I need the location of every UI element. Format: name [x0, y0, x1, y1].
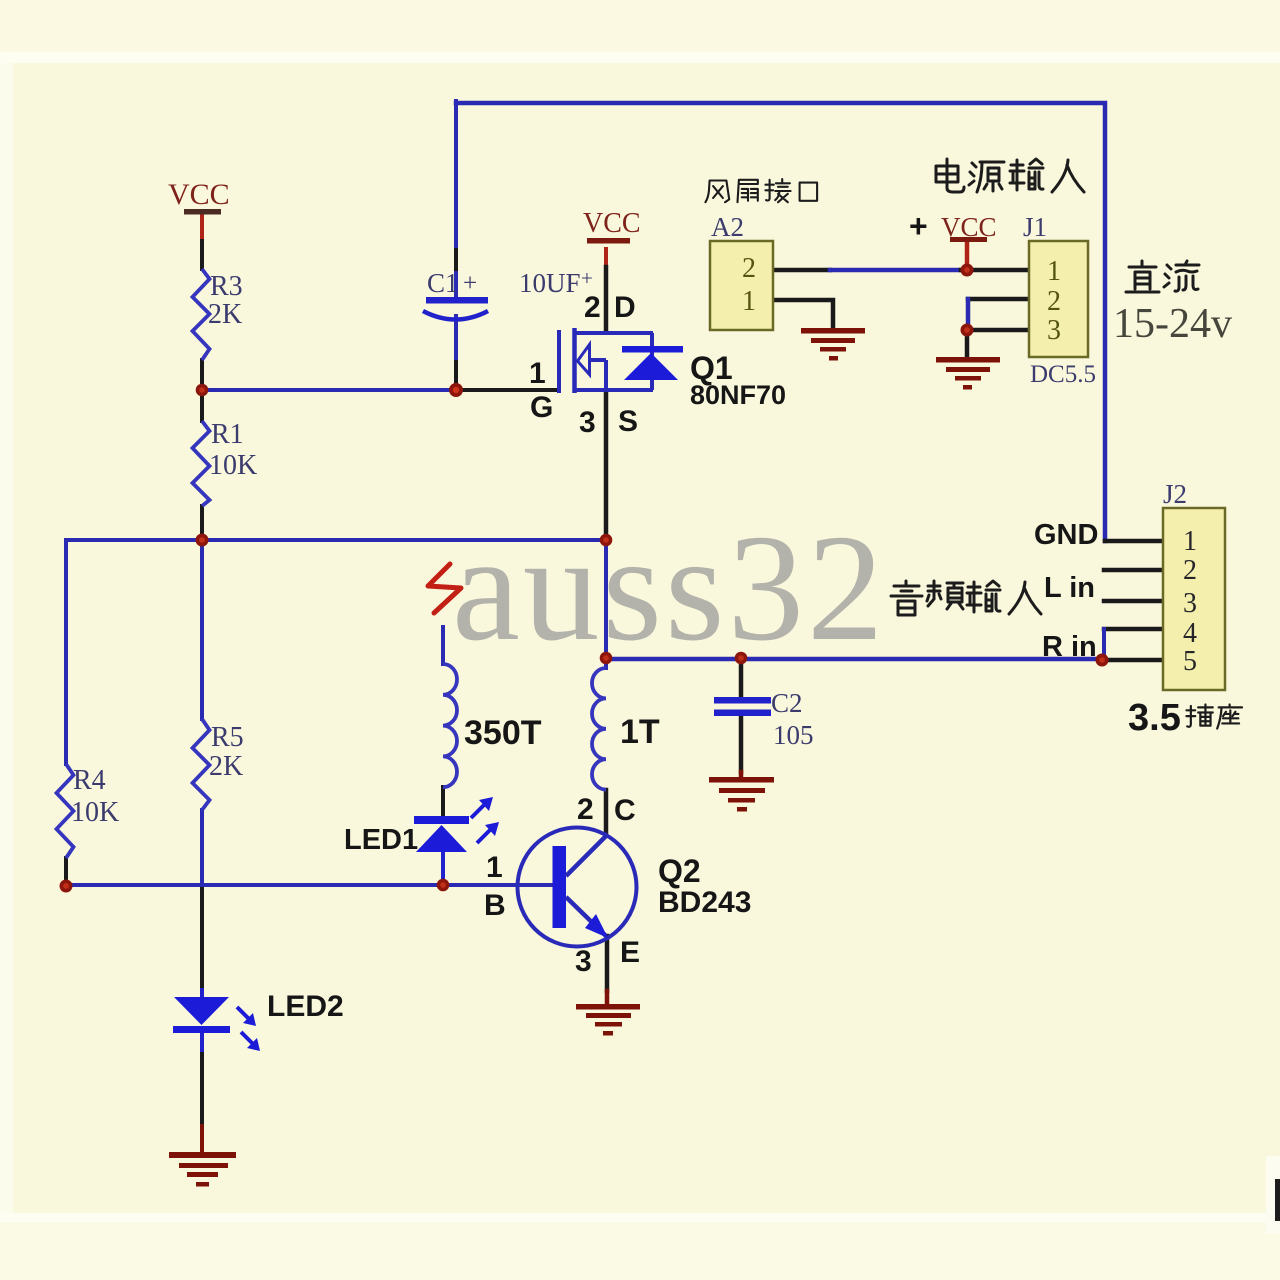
capacitor C2 [714, 697, 771, 704]
LED LED2 [174, 997, 229, 1025]
connector A2 (fan header) [710, 241, 773, 330]
svg-text:G: G [530, 391, 553, 424]
node C1/gate [449, 383, 463, 397]
svg-text:350T: 350T [464, 714, 542, 752]
wire LED2 leads [200, 990, 204, 997]
svg-text:2K: 2K [208, 299, 242, 330]
J2 pin numbers [1183, 526, 1197, 677]
svg-text:LED1: LED1 [344, 824, 418, 856]
wire C1 top lead [454, 101, 458, 250]
ground (J1 pin3) [936, 357, 1000, 390]
label 插座 (socket) [1186, 704, 1242, 728]
svg-text:R5: R5 [211, 722, 244, 753]
lightning bolt [428, 564, 461, 613]
node R in/J2 pin5 [1096, 654, 1109, 667]
svg-text:3: 3 [1047, 315, 1061, 346]
ground (Q2 emitter) [576, 1004, 640, 1036]
svg-text:VCC: VCC [168, 178, 230, 211]
svg-text:3: 3 [579, 406, 596, 439]
node R1/R5 [196, 534, 209, 547]
wire base horizontal node [66, 883, 553, 887]
svg-text:15-24v: 15-24v [1113, 301, 1232, 347]
wire J2 pin3 L in [1104, 599, 1163, 604]
body diode of Q1 [622, 346, 683, 353]
ground (A2 pin1) [801, 328, 865, 361]
wire LED1 bottom lead [441, 852, 445, 885]
inductor 1T [592, 668, 606, 790]
wire Q2 emitter to ground [605, 936, 610, 991]
svg-text:A2: A2 [711, 212, 744, 242]
svg-text:B: B [484, 889, 506, 922]
svg-text:E: E [620, 936, 640, 969]
wire 350T to LED1 [441, 787, 445, 817]
svg-text:LED2: LED2 [267, 990, 344, 1023]
label 风扇接口 (fan interface) [705, 179, 817, 202]
wire 350T top lead [441, 627, 445, 664]
svg-text:1: 1 [529, 357, 546, 390]
svg-text:auss32: auss32 [452, 504, 887, 673]
node R3/R1/gate [196, 384, 209, 397]
inductor 350T [443, 664, 457, 787]
svg-text:R3: R3 [210, 271, 243, 302]
svg-text:D: D [614, 291, 636, 324]
wire A2 pin1 to ground [773, 300, 833, 329]
wire C1 bottom lead [454, 316, 458, 362]
LED LED1 [414, 816, 469, 824]
capacitor C1 [426, 297, 488, 304]
svg-text:10K: 10K [209, 450, 257, 481]
svg-text:2: 2 [577, 793, 594, 826]
svg-text:2K: 2K [209, 751, 243, 782]
wire A2 pin2 to J1 pin1 [773, 268, 830, 273]
svg-text:DC5.5: DC5.5 [1030, 361, 1096, 388]
svg-text:+: + [463, 270, 477, 297]
ground (C2) [709, 777, 774, 812]
wire MOSFET source down [604, 392, 609, 540]
svg-text:2: 2 [1183, 555, 1197, 586]
svg-text:C: C [614, 794, 636, 827]
svg-text:10K: 10K [71, 797, 119, 828]
transistor Q2 [518, 828, 637, 947]
resistor R1 [193, 421, 210, 506]
svg-text:C2: C2 [771, 688, 803, 718]
wire audio horizontal node [606, 657, 1102, 662]
wire left branch down to R4 [64, 540, 68, 764]
svg-text:L in: L in [1044, 572, 1095, 604]
wire J2 pin4 [1104, 627, 1163, 632]
svg-text:1: 1 [1183, 526, 1197, 557]
svg-text:3: 3 [1183, 588, 1197, 619]
svg-text:R4: R4 [73, 765, 106, 796]
svg-text:+: + [581, 266, 593, 290]
node J1 pin2/pin3 gnd [961, 324, 974, 337]
wire 1T to Q2 collector [604, 790, 609, 833]
label 音频输入 (audio input) [891, 581, 1041, 615]
ground (LED2) [169, 1152, 236, 1187]
resistor R5 [193, 719, 210, 810]
svg-text:3.5: 3.5 [1128, 697, 1181, 739]
svg-text:10UF: 10UF [519, 268, 581, 298]
node R4/base rail [60, 880, 73, 893]
svg-text:Q2: Q2 [658, 853, 701, 889]
svg-text:80NF70: 80NF70 [690, 380, 786, 410]
node collector/audio rail [600, 652, 613, 665]
transistor Q1 MOSFET [559, 328, 653, 393]
svg-text:S: S [618, 405, 638, 438]
svg-text:2: 2 [1047, 286, 1061, 317]
svg-text:3: 3 [575, 945, 592, 978]
wire top rail from C1 to right side (VCC bus) [456, 103, 1105, 541]
svg-text:1: 1 [486, 851, 503, 884]
wire J2 pin2 stub [1104, 568, 1163, 573]
wire J1 pin3 to ground [967, 330, 1029, 357]
connector J1 (DC jack) [1029, 241, 1088, 357]
resistor R3 [193, 269, 210, 360]
svg-text:2: 2 [584, 291, 601, 324]
svg-text:GND: GND [1034, 519, 1098, 551]
svg-text:1: 1 [1047, 256, 1061, 287]
wire C2 top lead [739, 659, 744, 697]
wire J2 pin1 GND [1105, 539, 1163, 544]
svg-text:BD243: BD243 [658, 886, 751, 919]
svg-text:+: + [909, 208, 928, 244]
svg-text:1: 1 [742, 286, 756, 317]
wire +VCC stub [965, 242, 970, 268]
svg-text:4: 4 [1183, 618, 1197, 649]
svg-text:J1: J1 [1023, 212, 1047, 242]
wire mid horizontal node [66, 538, 606, 542]
svg-text:R in: R in [1042, 631, 1097, 663]
wire source junction down to 1T [604, 540, 608, 668]
svg-text:VCC: VCC [583, 208, 641, 239]
node LED1/base rail [437, 879, 450, 892]
wire R3 to junction [200, 360, 204, 421]
edge artifact right [1266, 1156, 1280, 1234]
wire gate node: R3/R1 junction to C1 to MOSFET gate [202, 388, 456, 392]
node +VCC/A2pin2 [961, 264, 974, 277]
svg-text:1T: 1T [620, 713, 660, 751]
svg-text:5: 5 [1183, 646, 1197, 677]
resistor R4 [57, 764, 74, 858]
svg-text:J2: J2 [1163, 479, 1187, 509]
wire VCC left stub [200, 213, 204, 241]
node C2/audio rail [735, 652, 748, 665]
svg-text:C1: C1 [427, 268, 459, 298]
node source/mid rail [600, 534, 613, 547]
wire R5 branch [200, 540, 204, 719]
svg-text:R1: R1 [211, 419, 244, 450]
wire C2 bottom lead [739, 715, 744, 772]
connector J2 (3.5mm jack) [1163, 508, 1225, 690]
wire VCC drain stub [604, 249, 608, 267]
wire J2 pin5 R in [1102, 658, 1163, 663]
wire J1 pin2 [968, 297, 1029, 302]
label 直流 (DC) [1126, 261, 1199, 292]
svg-text:2: 2 [742, 253, 756, 284]
wire R1 bottom [200, 506, 204, 540]
label 电源输入 (power input) [936, 159, 1084, 192]
svg-text:105: 105 [773, 720, 814, 750]
